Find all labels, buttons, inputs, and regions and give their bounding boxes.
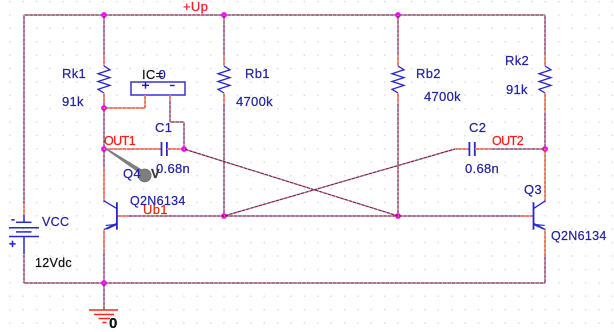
- node junction +Up/Rk1: [101, 12, 107, 18]
- wire base bus Rb1 node to Rb2 node: [224, 215, 398, 217]
- wire OUT1 down to Q4 collector: [103, 149, 105, 170]
- value 12Vdc of VCC: [35, 256, 72, 270]
- resistor Rb2: [392, 66, 404, 93]
- wire base bus Q4 to Rb1 node: [117, 215, 130, 217]
- wire diagonal C1-node to Rb2-node: [184, 149, 398, 216]
- value 91k of Rk1: [62, 94, 84, 109]
- wire bottom rail: [24, 282, 545, 284]
- node C1 right junction: [181, 146, 187, 152]
- transistor Q3 (Q2N6134, right): [534, 201, 546, 230]
- node ground junction: [101, 280, 107, 286]
- value 0.68n of C2: [465, 161, 499, 176]
- capacitor C1: [161, 142, 163, 156]
- net label Ub1: [143, 202, 168, 217]
- resistor Rk1: [98, 66, 110, 93]
- net label +Up: [183, 0, 208, 14]
- node Rb1/base-bus junction: [221, 213, 227, 219]
- wire Q3 emitter down to bottom rail: [544, 230, 546, 258]
- wire top rail to Rk2 top: [544, 15, 546, 57]
- battery plus mark: [9, 237, 16, 251]
- label Rb2: [416, 66, 441, 81]
- wire +Up rail to Rk1 top: [103, 15, 105, 56]
- label Q2N6134 of Q4: [130, 194, 186, 208]
- wire IC minus lead right: [170, 121, 184, 123]
- node OUT1 junction: [101, 146, 107, 152]
- value 0.68n of C1: [156, 161, 190, 176]
- wire IC minus lead down: [169, 95, 171, 101]
- wire Rb1 bottom to base bus: [223, 93, 225, 105]
- label Q2N6134 of Q3: [551, 229, 607, 243]
- wire left edge from +Up rail down to VCC: [23, 15, 25, 204]
- voltage probe marker at OUT1: [105, 148, 143, 175]
- node junction +Up/Rb1: [221, 12, 227, 18]
- IC plus terminal mark: [142, 82, 149, 89]
- value 4700k of Rb1: [236, 94, 273, 109]
- wire Rb2 bottom to base bus: [397, 93, 399, 105]
- battery minus mark: [11, 212, 15, 226]
- transistor Q4 (Q2N6134, left): [104, 201, 117, 230]
- label Q4: [123, 166, 141, 181]
- wire VCC bottom to rail corner: [23, 254, 25, 283]
- wire C1 right plate to node: [167, 148, 184, 150]
- wire Q4 emitter down to ground rail: [103, 230, 105, 253]
- label Q3: [524, 182, 542, 197]
- node junction Rk1/IC+ tap: [101, 105, 107, 111]
- IC minus terminal mark: [170, 85, 175, 87]
- wire C2 right plate to OUT2: [475, 148, 492, 150]
- ground symbol 0: [89, 310, 118, 323]
- net label OUT1: [104, 134, 135, 148]
- value 91k of Rk2: [506, 82, 528, 97]
- wire OUT2 down to Q3 collector: [544, 149, 546, 202]
- label C2: [469, 120, 486, 135]
- battery VCC 12Vdc: [9, 215, 39, 254]
- wire +Up rail to Rb2 top: [397, 15, 399, 57]
- wire OUT1 to C1 left plate: [104, 148, 162, 150]
- wire IC tap junction down to OUT1: [103, 108, 105, 149]
- wire diagonal end to C2 left plate: [455, 148, 458, 150]
- wire diagonal Rb1-node to C2: [224, 149, 455, 216]
- label IC=0: [142, 67, 166, 82]
- ground net label 0: [109, 315, 118, 332]
- wire +Up rail to Rb1 top: [223, 15, 225, 57]
- wire base bus Rb2 node to Q3 base: [398, 215, 522, 217]
- wire Rk1 bottom to IC tap junction: [103, 93, 105, 103]
- label VCC: [42, 215, 69, 229]
- wire IC minus lead down to C1 node: [183, 122, 185, 149]
- wire IC tap horizontal: [104, 107, 145, 109]
- label Rb1: [245, 66, 270, 81]
- label Rk1: [62, 66, 86, 81]
- label Rk2: [505, 53, 529, 68]
- wire IC plus lead: [144, 95, 146, 108]
- node Rb2/base-bus junction: [395, 213, 401, 219]
- node OUT2 junction: [542, 146, 548, 152]
- node junction +Up/Rb2: [395, 12, 401, 18]
- wire ground stem: [103, 283, 105, 310]
- probe label V: [151, 166, 160, 181]
- wire VCC top pin stub: [23, 204, 25, 215]
- IC symbol box U-IC: [131, 82, 185, 95]
- wire +Up top rail: [24, 14, 545, 16]
- label C1: [155, 120, 172, 135]
- resistor Rk2: [539, 66, 551, 93]
- net label OUT2: [492, 134, 523, 148]
- wire Rk2 bottom to OUT2: [544, 93, 546, 113]
- capacitor C2: [468, 142, 470, 156]
- value 4700k of Rb2: [424, 89, 461, 104]
- resistor Rb1: [218, 66, 230, 93]
